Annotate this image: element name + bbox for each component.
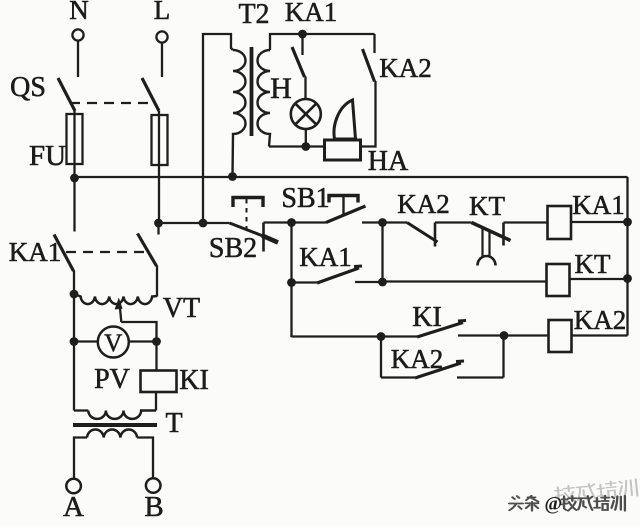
- svg-text:B: B: [144, 491, 163, 523]
- svg-text:A: A: [63, 491, 84, 523]
- wire self-hold left vertical: [290, 223, 292, 338]
- svg-text:@: @: [545, 494, 563, 515]
- svg-text:KT: KT: [469, 191, 505, 221]
- wire T2 primary left: [203, 34, 233, 223]
- svg-text:KA1: KA1: [299, 242, 352, 272]
- QS linkage dashed: [70, 102, 156, 104]
- svg-text:V: V: [104, 330, 122, 357]
- autotransformer VT winding: [74, 294, 157, 304]
- contact KA1 lamp branch stub: [301, 34, 303, 55]
- contact KA1 main right blade: [138, 234, 157, 267]
- wire row3 to coil KT: [383, 280, 547, 282]
- VT wiper arrow: [115, 298, 123, 323]
- svg-text:H: H: [270, 72, 292, 105]
- pushbutton SB1 cap: [329, 196, 358, 203]
- pushbutton SB1 blade: [326, 206, 366, 223]
- svg-text:PV: PV: [94, 364, 130, 395]
- node self-hold right junction: [378, 218, 387, 227]
- svg-text:KA1: KA1: [572, 190, 625, 220]
- contact KA2 parallel blade: [415, 363, 461, 378]
- node L control junction: [154, 219, 163, 228]
- wire row5 left vertical: [380, 337, 382, 378]
- wire KA1 main right lower: [156, 266, 158, 297]
- svg-text:SB2: SB2: [209, 233, 257, 264]
- wire row4 right segment: [458, 334, 549, 336]
- contact KA2 top right corner wire: [373, 34, 375, 53]
- transformer T2 secondary winding: [258, 50, 271, 147]
- wire KI coil to T primary: [155, 392, 157, 411]
- node T2 primary to bus: [228, 172, 237, 181]
- contact KA1 main right upper wire: [157, 223, 159, 235]
- switch QS pole N blade: [58, 78, 75, 111]
- wire meter node to KI coil: [155, 342, 157, 371]
- pushbutton SB2 fixed stub: [262, 223, 265, 252]
- transformer T primary lead left: [74, 409, 88, 411]
- wire meter left lead: [74, 340, 98, 342]
- node rail KA1: [623, 218, 632, 227]
- wire row5 left segment: [381, 376, 415, 378]
- wire row3 right segment: [355, 281, 383, 283]
- svg-text:VT: VT: [163, 293, 200, 324]
- wire KA1 main left lower: [73, 271, 75, 295]
- wire VT wiper to meter node: [121, 322, 156, 342]
- coil KA1: [548, 206, 572, 239]
- wire L control feed: [159, 222, 230, 224]
- contact KT delay lines: [483, 228, 490, 257]
- svg-text:KT: KT: [575, 249, 611, 279]
- pushbutton SB2 stem dashed: [246, 199, 248, 230]
- watermark faint 技成培训: [555, 479, 638, 504]
- node meter left: [70, 337, 79, 346]
- node self-hold left junction: [287, 218, 296, 227]
- transformer T secondary lead left: [74, 438, 87, 479]
- wire N fuse feed: [73, 111, 75, 178]
- pushbutton SB2 cap: [233, 198, 263, 208]
- svg-text:QS: QS: [10, 72, 46, 103]
- pushbutton SB2 blade: [230, 223, 277, 241]
- wire row3 left segment: [292, 281, 318, 283]
- transformer T core: [73, 423, 157, 427]
- contact KA2 NC blade: [407, 223, 438, 243]
- node lamp branch top: [298, 30, 307, 39]
- wire SB2 to SB1: [264, 221, 327, 223]
- svg-text:KI: KI: [412, 302, 442, 333]
- contact KA2 parallel blade tip: [456, 360, 464, 364]
- transformer T primary winding: [88, 411, 156, 419]
- node T2 control junction: [199, 219, 208, 228]
- svg-text:KA2: KA2: [574, 305, 627, 335]
- node bus-N junction: [70, 174, 79, 183]
- wire left vertical VT to meter: [73, 294, 75, 342]
- node row3 left: [287, 278, 296, 287]
- node rail KT: [623, 274, 632, 283]
- wire main bus N rail: [75, 176, 628, 178]
- svg-text:KA1: KA1: [285, 0, 338, 27]
- wire KA2 branch to bell: [361, 81, 376, 147]
- contact KA1 self-hold blade tip: [354, 265, 362, 269]
- fuse FU right: [152, 115, 168, 165]
- pushbutton SB1 stem: [342, 196, 344, 215]
- wire blade to lamp: [304, 77, 306, 100]
- wire T2 secondary top: [270, 34, 375, 50]
- terminal L: [156, 31, 167, 42]
- contact KA1 lamp branch blade: [292, 47, 305, 77]
- svg-text:FU: FU: [29, 140, 66, 172]
- wire self-hold right vertical: [381, 223, 383, 283]
- svg-text:N: N: [69, 0, 89, 25]
- wire row5 right segment: [457, 376, 504, 378]
- contact KT delay parachute: [478, 256, 496, 266]
- wire N rail to KA1 main left: [73, 178, 75, 232]
- transformer T2 primary winding: [233, 50, 246, 177]
- switch QS pole L blade: [142, 78, 159, 111]
- lamp H: [291, 99, 321, 129]
- wire right rail: [626, 177, 628, 336]
- wire N down: [77, 41, 79, 77]
- voltmeter PV circle: [98, 327, 129, 358]
- watermark dark 头条@技成培训: [509, 496, 625, 511]
- node row3 right: [378, 278, 387, 287]
- wire row4 to KI: [381, 335, 417, 337]
- wire KT to coil KA1: [504, 221, 548, 223]
- terminal B: [146, 478, 161, 493]
- coil KI: [141, 371, 177, 393]
- contact KI blade tip: [458, 319, 466, 323]
- svg-text:SB1: SB1: [281, 183, 329, 214]
- node row4 branch left: [377, 332, 386, 341]
- contact KT NC delayed blade: [472, 223, 511, 241]
- bell HA striker: [334, 100, 356, 139]
- svg-text:T2: T2: [238, 0, 269, 30]
- wire SB1 right: [362, 221, 407, 223]
- wire coil KA2 to rail: [572, 334, 628, 336]
- wire coil KT to rail: [570, 278, 628, 280]
- wire row5 right vertical: [502, 336, 504, 378]
- contact KA1 self-hold blade: [317, 268, 359, 283]
- transformer T2 core: [250, 47, 254, 136]
- pushbutton SB2 blade tip: [262, 236, 278, 243]
- svg-text:KA2: KA2: [379, 53, 432, 83]
- svg-text:KA2: KA2: [391, 344, 444, 374]
- transformer T secondary winding: [87, 429, 137, 437]
- contact KA2 top right blade: [363, 49, 375, 82]
- terminal N: [72, 29, 83, 40]
- bell HA base: [325, 140, 361, 160]
- svg-text:HA: HA: [368, 146, 409, 177]
- wire row4 left: [292, 335, 382, 338]
- svg-text:KA2: KA2: [397, 189, 450, 219]
- contact KT NC stub: [502, 223, 505, 246]
- wire L down: [161, 43, 163, 77]
- transformer T secondary lead right: [137, 438, 153, 479]
- svg-text:KA1: KA1: [9, 237, 62, 267]
- node lamp bottom junction: [301, 142, 310, 151]
- svg-text:L: L: [154, 0, 171, 25]
- fuse FU left: [67, 114, 83, 164]
- node VT left: [70, 290, 79, 299]
- wire left vertical to T: [73, 342, 75, 411]
- contact KA2 NC stub: [434, 223, 437, 247]
- contact KA1 main left blade: [54, 235, 74, 272]
- wire meter right lead: [129, 340, 157, 342]
- svg-text:KI: KI: [179, 365, 209, 396]
- wire coil KA1 to rail: [571, 221, 628, 223]
- KA1 main linkage dashed: [66, 251, 146, 253]
- coil KT: [547, 264, 570, 296]
- coil KA2: [549, 320, 572, 352]
- wire KA2 to KT: [435, 221, 472, 223]
- terminal A: [66, 479, 81, 494]
- wire L fuse feed: [158, 111, 160, 223]
- wire lamp bottom: [305, 129, 307, 147]
- contact KI blade: [417, 323, 463, 338]
- wire secondary bottom return: [269, 145, 325, 147]
- node meter right: [152, 337, 161, 346]
- svg-text:T: T: [165, 408, 182, 439]
- node row4 branch right: [500, 331, 509, 340]
